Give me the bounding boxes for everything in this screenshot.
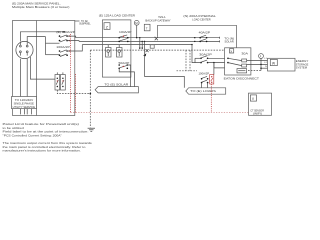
wire breaker feed bus vertical	[45, 37, 47, 55]
load center main breaker	[118, 35, 128, 42]
wire to red breaker	[213, 63, 215, 75]
ground bond dashed horizontal	[57, 90, 91, 94]
solar banner arrow	[95, 87, 138, 93]
svg-text:SYSTEM: SYSTEM	[296, 66, 308, 70]
main service panel title	[12, 1, 70, 9]
junction X on comm	[146, 49, 149, 52]
backup feeder breaker	[201, 76, 209, 83]
solar feed breaker 40A	[194, 35, 207, 42]
CT drop 1	[139, 37, 141, 49]
svg-text:TESLA: TESLA	[158, 15, 165, 19]
svg-text:(E) 125A LOAD CENTER: (E) 125A LOAD CENTER	[99, 14, 135, 18]
main breaker group 1	[59, 31, 70, 42]
wire solar breaker out 1	[127, 65, 130, 87]
bus end ticks	[219, 37, 221, 43]
note box B	[150, 45, 154, 48]
svg-text:100A/2P: 100A/2P	[56, 45, 70, 49]
svg-text:ENERGY: ENERGY	[296, 59, 309, 63]
svg-text:TO 120/240V: TO 120/240V	[15, 98, 34, 102]
wire meter L2 riser	[27, 37, 45, 42]
gateway titles	[145, 15, 170, 23]
svg-text:SUBPANEL: SUBPANEL	[79, 22, 91, 26]
svg-text:100A/2P: 100A/2P	[199, 72, 210, 76]
wires feeder to loads banner	[202, 83, 208, 88]
main switch pullout 1	[55, 75, 60, 91]
device stubs	[108, 45, 119, 48]
ground symbol	[88, 128, 95, 131]
new PCS breaker (red)	[210, 75, 214, 85]
internal load center titles	[183, 14, 216, 22]
svg-text:T: T	[146, 26, 148, 30]
external disconnect enclosure	[225, 48, 251, 75]
svg-text:UTILITY SERVICE: UTILITY SERVICE	[13, 105, 36, 109]
label TO (E) SUBPANEL	[75, 19, 91, 26]
wire feed stub row3	[46, 54, 60, 56]
svg-text:BACKUP GATEWAY: BACKUP GATEWAY	[145, 19, 170, 23]
pullout top stubs	[57, 72, 63, 74]
ESS terminal labels	[264, 58, 267, 68]
solar breaker	[118, 64, 128, 69]
wire 30A to disconnect L1	[208, 57, 228, 59]
red CT dashed 1	[69, 34, 71, 113]
powerwall breaker 30A	[200, 56, 208, 64]
wire meter service drop L1	[19, 59, 21, 97]
wire exit stub 1	[67, 36, 76, 38]
svg-text:LOAD CENTER: LOAD CENTER	[192, 17, 210, 21]
svg-text:(E) 100A/2P: (E) 100A/2P	[56, 30, 75, 34]
device box 2	[117, 48, 123, 58]
label TO (N) SOLAR	[224, 36, 234, 43]
svg-text:manufacturer's instructions fo: manufacturer's instructions for more inf…	[3, 149, 81, 153]
wire meter service drop L2	[26, 59, 28, 97]
wire bus L3	[82, 44, 192, 46]
svg-text:SINGLE PHASE: SINGLE PHASE	[14, 101, 34, 105]
wire neutral to disconnect	[213, 62, 237, 68]
svg-text:X: X	[230, 49, 232, 53]
meter circle M	[134, 20, 139, 38]
feeder to loads banner	[144, 41, 185, 88]
main service panel enclosure	[13, 21, 75, 116]
interconnect X	[155, 37, 158, 40]
CT circle at ESS	[259, 54, 264, 69]
comm pink dashed	[70, 112, 248, 114]
wire exit stub 3	[67, 45, 82, 51]
dashed MID box	[177, 50, 198, 71]
svg-text:TO (E) LOADS: TO (E) LOADS	[190, 89, 216, 93]
svg-text:50A/2P: 50A/2P	[119, 61, 130, 65]
svg-text:100A/2P: 100A/2P	[119, 30, 132, 34]
comm dashed bus	[90, 49, 230, 51]
disconnect blades	[227, 58, 246, 68]
inverter W box	[270, 59, 277, 65]
wire disconnect to ESS L2	[247, 63, 268, 65]
wire neutral to ESS	[248, 68, 268, 70]
panel divider	[36, 21, 38, 116]
red CT dashed 2	[75, 74, 77, 113]
note box A	[144, 24, 150, 31]
main switch pullout 2	[61, 75, 66, 91]
svg-text:30A/2P: 30A/2P	[199, 53, 212, 57]
red CT dashed 3	[210, 84, 212, 113]
comm stub arrow	[143, 53, 146, 56]
svg-text:"PCS Controlled Current Settin: "PCS Controlled Current Setting: 200A"	[3, 133, 62, 137]
wire exit stub 2	[67, 40, 79, 43]
ground bond dashed riser	[89, 50, 91, 94]
utility service label box	[12, 97, 37, 109]
wire bus L1	[76, 37, 220, 39]
svg-text:TO (E) SOLAR: TO (E) SOLAR	[104, 83, 128, 87]
wire disconnect to ESS L1	[247, 59, 268, 61]
internal load center enclosure	[158, 25, 237, 48]
wire 30A to disconnect L2	[208, 62, 228, 64]
CT sensor enclosure	[249, 93, 272, 116]
load center enclosure	[102, 20, 130, 77]
utility meter	[16, 41, 33, 58]
loads banner arrow	[186, 88, 226, 94]
ground dashed drop	[89, 94, 91, 128]
main breaker group 2	[59, 50, 70, 57]
svg-text:(WIFI): (WIFI)	[253, 112, 262, 116]
svg-text:30A: 30A	[241, 52, 248, 56]
note box Z	[104, 23, 110, 30]
svg-text:Multiple Main Breakers (3 or f: Multiple Main Breakers (3 or fewer)	[12, 5, 70, 9]
device box 1	[106, 48, 112, 58]
wire solar breaker out 2	[119, 68, 134, 86]
wire meter to pullouts	[30, 57, 55, 79]
disconnect neutral block	[237, 69, 247, 73]
svg-text:EATON DISCONNECT: EATON DISCONNECT	[224, 76, 260, 80]
wire bus L2	[79, 40, 220, 42]
service stubs to utility	[20, 109, 31, 115]
wire meter L1 to main breakers	[20, 32, 64, 42]
label ENERGY STORAGE SYSTEM	[296, 59, 309, 70]
svg-text:SOLAR: SOLAR	[225, 39, 234, 43]
ESS enclosure	[268, 58, 296, 71]
svg-text:40A/2P: 40A/2P	[199, 31, 211, 35]
wire feed stub row2	[46, 42, 60, 44]
svg-text:(N) 200A INTERNAL: (N) 200A INTERNAL	[183, 14, 216, 18]
svg-text:STORAGE: STORAGE	[296, 62, 309, 66]
CT drop 2	[141, 41, 143, 50]
wire bus drop to 30A	[191, 44, 201, 63]
notes text block	[3, 122, 93, 153]
